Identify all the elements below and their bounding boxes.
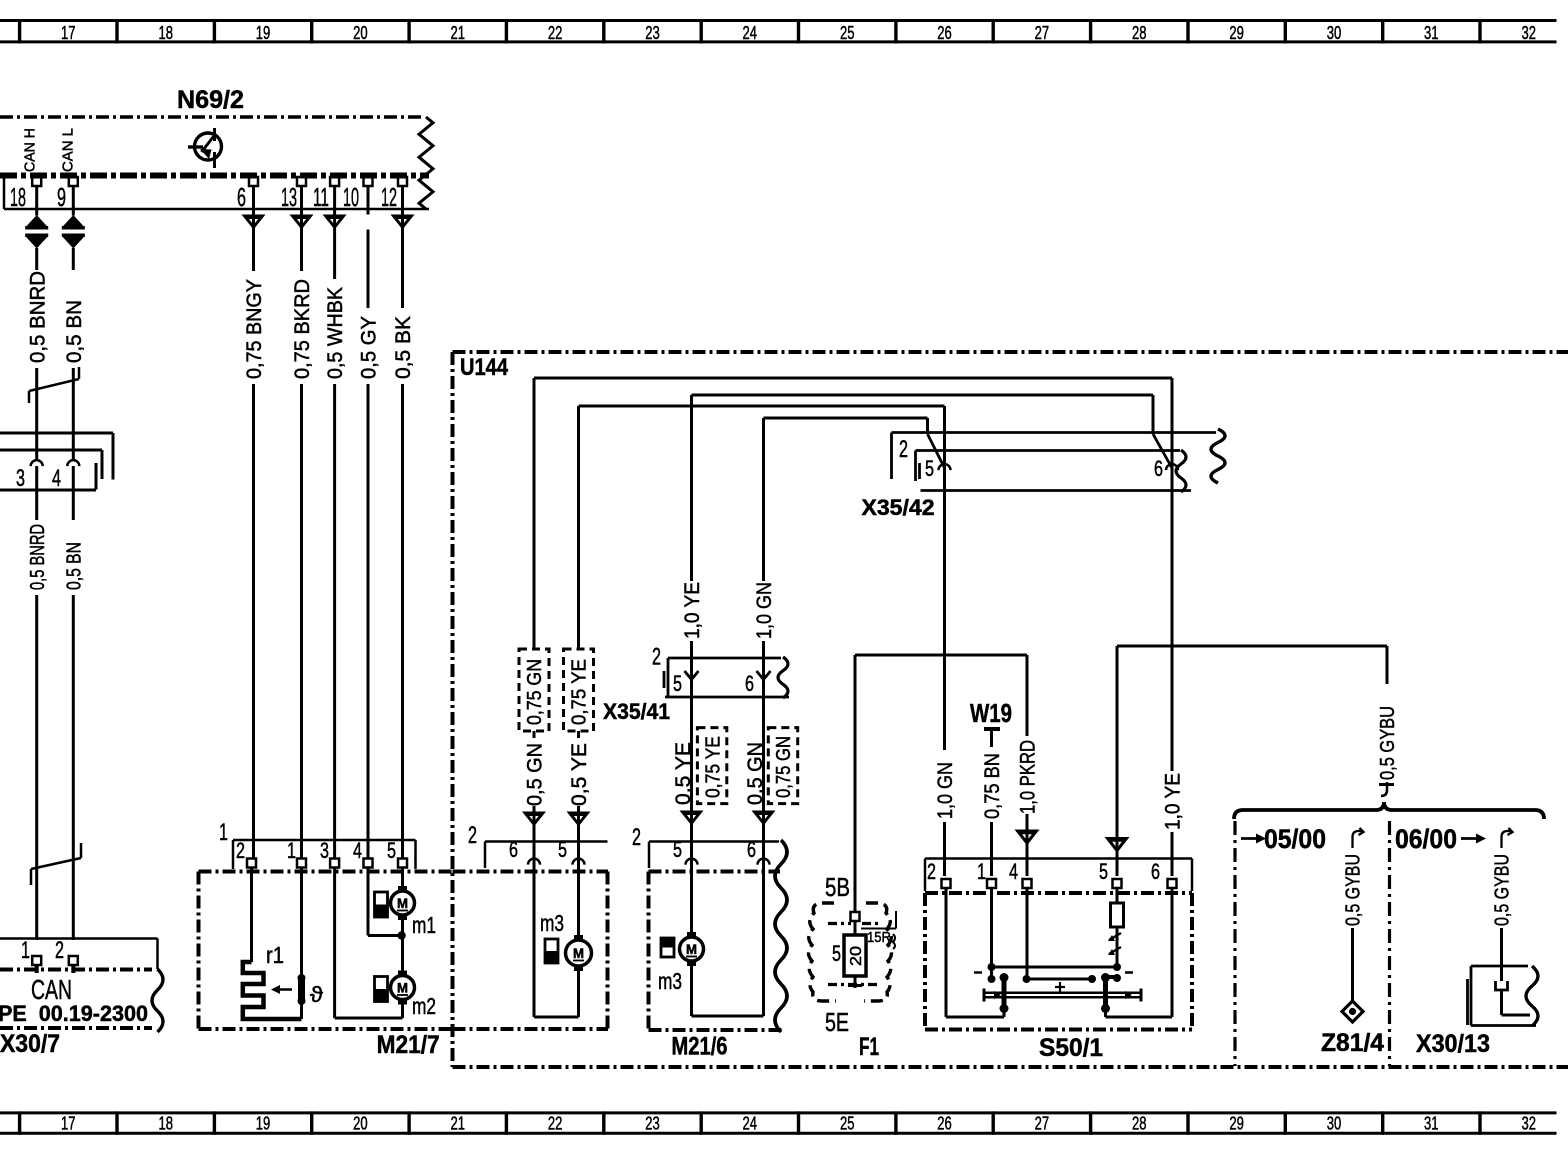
heating element — [984, 989, 1141, 1002]
bottom ruler band — [0, 1111, 1557, 1134]
svg-text:4: 4 — [52, 465, 61, 492]
svg-text:S50/1: S50/1 — [1039, 1034, 1103, 1062]
svg-text:0,5 BK: 0,5 BK — [392, 316, 415, 379]
svg-text:4: 4 — [353, 838, 362, 863]
X35/41 contact — [685, 658, 699, 680]
svg-text:32: 32 — [1521, 1113, 1536, 1134]
svg-text:F1: F1 — [859, 1033, 879, 1061]
svg-text:X30/7: X30/7 — [0, 1030, 60, 1058]
svg-text:20: 20 — [848, 946, 865, 966]
M21/6 connector shell — [632, 824, 779, 868]
svg-text:31: 31 — [1424, 1113, 1439, 1134]
svg-text:9: 9 — [57, 182, 66, 212]
svg-text:m1: m1 — [412, 912, 436, 938]
svg-text:0,75 YE: 0,75 YE — [702, 736, 724, 798]
connector sleeve Z81/4 — [1321, 1001, 1384, 1057]
svg-text:17: 17 — [61, 1113, 76, 1134]
m3 box borders — [453, 872, 609, 1030]
svg-text:20: 20 — [353, 1113, 368, 1134]
svg-text:30: 30 — [1327, 1113, 1342, 1134]
wire GY x=368 — [358, 186, 381, 858]
S50/1 pin terminal — [1023, 879, 1032, 888]
ground W19 — [970, 698, 1012, 876]
svg-text:6: 6 — [1151, 859, 1160, 884]
X35/41 contact — [757, 658, 771, 680]
svg-text:2: 2 — [899, 436, 908, 463]
svg-text:U144: U144 — [460, 354, 509, 381]
svg-text:21: 21 — [450, 1113, 465, 1134]
svg-text:1: 1 — [287, 838, 296, 863]
option separator — [1388, 821, 1391, 1066]
wire BKRD x=301.5 — [290, 186, 315, 858]
wire 0,5 GYBU drop — [1377, 646, 1399, 780]
wire bus D — [764, 417, 928, 420]
svg-text:23: 23 — [645, 22, 660, 43]
svg-text:21: 21 — [450, 22, 465, 43]
m3 blower box connector shell — [468, 822, 608, 868]
thermistor on pin 1 wire — [298, 868, 324, 1020]
svg-text:0,5 BNRD: 0,5 BNRD — [26, 271, 49, 363]
svg-text:X35/41: X35/41 — [603, 699, 670, 724]
svg-text:r1: r1 — [266, 942, 284, 968]
S50/1 internal resistor — [1111, 888, 1124, 967]
top ruler band — [0, 19, 1557, 43]
svg-text:0,75 GN: 0,75 GN — [524, 659, 546, 725]
svg-text:0,75 YE: 0,75 YE — [569, 659, 591, 725]
N69/2 pin 9 — [57, 177, 78, 212]
N69/2 pin 18 — [10, 177, 41, 212]
wire 0,5 YE x=691.5 into M21/6 — [672, 679, 727, 868]
svg-text:1,0 PKRD: 1,0 PKRD — [1017, 740, 1040, 814]
fuse terminal — [851, 912, 860, 935]
svg-text:5: 5 — [925, 456, 934, 481]
svg-text:4: 4 — [1009, 859, 1018, 884]
N69/2 pin 13 — [281, 177, 306, 212]
svg-text:6: 6 — [237, 182, 246, 212]
brush bars — [1000, 973, 1122, 1013]
twisted-pair symbol — [62, 215, 85, 249]
connector pin 4 — [52, 460, 79, 492]
svg-text:05/00: 05/00 — [1264, 824, 1326, 854]
svg-text:06/00: 06/00 — [1395, 824, 1457, 854]
svg-text:2: 2 — [55, 937, 64, 964]
svg-text:26: 26 — [937, 22, 952, 43]
svg-text:m2: m2 — [412, 993, 436, 1019]
M21/6 torn edge — [775, 840, 787, 1032]
svg-text:0,5 BN: 0,5 BN — [63, 300, 86, 363]
wire segment with size/colour label — [63, 248, 86, 460]
svg-text:N69/2: N69/2 — [177, 86, 244, 114]
svg-text:10: 10 — [343, 182, 359, 212]
svg-text:M21/6: M21/6 — [672, 1033, 728, 1061]
svg-text:5: 5 — [1099, 859, 1108, 884]
svg-text:PE 00.19-2300: PE 00.19-2300 — [0, 1001, 148, 1026]
svg-text:1,0 GN: 1,0 GN — [753, 582, 776, 639]
svg-text:1,0 YE: 1,0 YE — [1162, 773, 1185, 830]
svg-text:1: 1 — [219, 819, 228, 846]
S50/1 pin terminal — [987, 879, 996, 888]
motor m2 — [375, 918, 437, 1019]
junction node — [397, 931, 405, 939]
fuse element F1 — [844, 935, 866, 988]
M21/7 connector shell 1 — [219, 819, 416, 869]
N69/2 pin 11 — [313, 177, 339, 212]
transistor symbol in N69/2 — [188, 128, 222, 168]
svg-text:28: 28 — [1132, 22, 1147, 43]
wire to S50/1 pin5 — [1105, 646, 1388, 876]
plus bus — [1023, 888, 1097, 992]
svg-text:M: M — [686, 941, 697, 957]
wire CAN x=36.7 upper segment — [35, 186, 38, 216]
blower unit M21/7 box — [199, 872, 453, 1060]
svg-text:29: 29 — [1229, 1113, 1244, 1134]
svg-text:22: 22 — [548, 22, 563, 43]
wire bus C — [579, 405, 945, 408]
junction block X30/7 — [0, 939, 158, 1029]
option box 06/00 — [1395, 824, 1486, 854]
wire 0,5 YE x=578.5 — [564, 406, 594, 868]
svg-text:0,5 YE: 0,5 YE — [568, 743, 591, 806]
X35/42 contact 5 — [928, 418, 951, 470]
svg-text:m3: m3 — [540, 910, 564, 936]
illumination marks — [1108, 933, 1121, 955]
svg-text:Z81/4: Z81/4 — [1321, 1029, 1384, 1057]
svg-text:11: 11 — [313, 182, 329, 212]
svg-text:23: 23 — [645, 1113, 660, 1134]
adjustment arrow — [271, 985, 292, 994]
svg-text:6: 6 — [1154, 456, 1163, 481]
svg-text:0,5 GN: 0,5 GN — [524, 743, 547, 806]
switch unit S50/1 box — [925, 893, 1192, 1062]
svg-text:24: 24 — [743, 1113, 758, 1134]
wire 0,5 GYBU (05/00) — [1343, 828, 1365, 1002]
svg-text:6: 6 — [509, 837, 518, 862]
svg-text:0,75 GN: 0,75 GN — [773, 736, 795, 798]
wire 1,0 YE to S50/1 pin6 — [1162, 378, 1185, 876]
svg-text:0,75 BN: 0,75 BN — [981, 753, 1004, 819]
N69/2 connector shell — [4, 176, 429, 210]
wire 1,0 GN to S50/1 pin2 — [934, 406, 957, 876]
twist marker lower — [31, 843, 81, 885]
svg-text:5E: 5E — [825, 1007, 849, 1037]
M21/7 pin 3 — [320, 838, 339, 868]
svg-text:ϑ: ϑ — [310, 982, 323, 1007]
svg-text:2: 2 — [652, 644, 661, 671]
svg-text:0,5 BN: 0,5 BN — [64, 542, 86, 590]
svg-text:0,75 BKRD: 0,75 BKRD — [291, 279, 314, 379]
svg-text:29: 29 — [1229, 22, 1244, 43]
connector pin 3 — [16, 460, 43, 492]
svg-text:2: 2 — [927, 859, 936, 884]
svg-text:26: 26 — [937, 1113, 952, 1134]
wire 0,5 GN x=763.5 into M21/6 — [744, 679, 798, 868]
connector X30/13 — [1416, 966, 1536, 1058]
svg-text:5: 5 — [673, 671, 682, 696]
svg-text:0,5 WHBK: 0,5 WHBK — [324, 287, 347, 379]
svg-text:13: 13 — [281, 182, 297, 212]
svg-text:30: 30 — [1327, 22, 1342, 43]
motor m3 (left box) — [534, 866, 592, 1017]
svg-text:5: 5 — [673, 837, 682, 862]
wire 5B to fuse F1 — [854, 655, 857, 912]
svg-text:2: 2 — [632, 824, 641, 851]
option box 05/00 — [1235, 821, 1326, 1066]
twist marker upper — [29, 367, 79, 403]
wire pin3 to motor return — [335, 868, 403, 1019]
svg-text:25: 25 — [840, 22, 855, 43]
fuse holder dashed outline — [809, 903, 892, 1001]
svg-text:0,5 GY: 0,5 GY — [358, 316, 381, 379]
motor m3 (M21/6) — [658, 866, 764, 1016]
wire WHBK x=334.6 — [323, 186, 348, 858]
svg-text:0,5 GYBU: 0,5 GYBU — [1343, 854, 1365, 926]
X30/7 torn edge — [152, 969, 163, 1032]
svg-text:m3: m3 — [658, 968, 682, 994]
svg-text:CAN L: CAN L — [59, 128, 76, 172]
svg-text:M: M — [573, 945, 584, 961]
wire 0,5 GN x=534 — [519, 378, 549, 868]
svg-text:32: 32 — [1521, 22, 1536, 43]
twisted-pair symbol — [25, 215, 48, 249]
svg-text:5: 5 — [387, 838, 396, 863]
svg-text:1,0 YE: 1,0 YE — [681, 582, 704, 639]
svg-text:W19: W19 — [970, 698, 1012, 728]
N69/2 pin 10 — [343, 177, 373, 212]
wire 1,0 YE x=691.5 — [681, 395, 704, 672]
N69/2 pin 12 — [381, 177, 407, 212]
svg-text:27: 27 — [1035, 1113, 1050, 1134]
motor m1 — [375, 868, 437, 939]
X35/42 torn edges — [1176, 450, 1186, 492]
S50/1 return wires — [946, 888, 1172, 1017]
svg-text:X35/42: X35/42 — [862, 495, 935, 520]
svg-text:19: 19 — [256, 22, 271, 43]
M21/7 pin 1 — [287, 838, 306, 868]
svg-text:0,75 BNGY: 0,75 BNGY — [243, 279, 266, 379]
wire CAN x=73.3 lower segment — [64, 466, 86, 940]
N69/2 pin 6 — [237, 177, 258, 212]
svg-text:1: 1 — [21, 937, 30, 964]
assembly U144 box — [453, 352, 1568, 1067]
svg-text:2: 2 — [236, 838, 245, 863]
svg-text:CAN H: CAN H — [21, 128, 38, 172]
svg-text:M: M — [397, 895, 408, 911]
branch arrow to options — [1379, 782, 1394, 796]
svg-text:28: 28 — [1132, 1113, 1147, 1134]
svg-text:0,5 GYBU: 0,5 GYBU — [1377, 706, 1399, 780]
svg-text:M21/7: M21/7 — [377, 1031, 440, 1059]
svg-text:0,5 YE: 0,5 YE — [672, 742, 695, 805]
svg-text:5: 5 — [558, 837, 567, 862]
X30/7 pin 1 — [21, 937, 41, 973]
X30/7 pin 2 — [55, 937, 78, 973]
svg-text:17: 17 — [61, 22, 76, 43]
svg-text:1: 1 — [977, 859, 986, 884]
X35/42 contact 6 — [1153, 395, 1178, 470]
svg-text:22: 22 — [548, 1113, 563, 1134]
wire 0,5 GYBU (06/00) — [1492, 828, 1514, 981]
wire BK x=402.5 — [391, 186, 416, 858]
wire F1 to S50/1 pin4 — [855, 655, 1040, 876]
svg-text:1,0 GN: 1,0 GN — [934, 762, 957, 819]
svg-text:3: 3 — [320, 838, 329, 863]
M21/7 pin 5 — [387, 838, 407, 868]
control unit N69/2 — [0, 86, 429, 176]
wire CAN x=36.7 lower segment — [27, 466, 49, 940]
svg-text:31: 31 — [1424, 22, 1439, 43]
wire 1,0 GN x=763.5 — [753, 418, 776, 672]
S50/1 pin terminal — [1113, 879, 1122, 888]
wire bus A — [534, 377, 1172, 380]
circuit 15R tap — [861, 911, 896, 949]
coupling X35/41 — [603, 644, 789, 725]
svg-text:20: 20 — [353, 22, 368, 43]
svg-text:18: 18 — [158, 1113, 173, 1134]
svg-text:3: 3 — [16, 465, 25, 492]
svg-text:0,5 GN: 0,5 GN — [744, 742, 767, 805]
wire BNGY x=253.5 — [242, 186, 267, 858]
svg-text:5B: 5B — [825, 872, 850, 902]
inline connector pins 3/4 shells — [0, 433, 113, 490]
svg-text:5: 5 — [832, 941, 841, 966]
X35/41 torn edge — [778, 657, 788, 698]
coupling X35/42 shells — [862, 433, 1217, 521]
svg-text:19: 19 — [256, 1113, 271, 1134]
svg-text:2: 2 — [468, 822, 477, 849]
svg-text:18: 18 — [158, 22, 173, 43]
svg-text:M: M — [397, 980, 408, 996]
svg-text:12: 12 — [381, 182, 397, 212]
svg-text:24: 24 — [743, 22, 758, 43]
svg-text:0,5 GYBU: 0,5 GYBU — [1492, 854, 1514, 926]
S50/1 pin terminal — [1168, 879, 1177, 888]
svg-text:15R: 15R — [867, 929, 891, 946]
minus bus — [974, 888, 1133, 983]
M21/7 pin 2 — [236, 838, 256, 868]
wire pin4 to junction — [368, 868, 402, 936]
svg-text:27: 27 — [1035, 22, 1050, 43]
resistor r1 (meander) — [243, 868, 302, 1020]
wire bus B — [692, 394, 1154, 397]
X30/13 torn edge — [1526, 966, 1538, 1026]
svg-text:0,5 BNRD: 0,5 BNRD — [27, 524, 49, 590]
svg-text:25: 25 — [840, 1113, 855, 1134]
N69/2 right torn edge — [419, 117, 433, 209]
svg-text:6: 6 — [747, 837, 756, 862]
S50/1 connector shell — [925, 859, 1192, 892]
svg-text:6: 6 — [745, 671, 754, 696]
wire CAN x=73.3 upper segment — [72, 186, 75, 216]
M21/7 pin 4 — [353, 838, 373, 868]
S50/1 pin terminal — [942, 879, 951, 888]
M21/6 box borders — [649, 872, 783, 1061]
svg-text:18: 18 — [10, 182, 26, 212]
wire segment with size/colour label — [26, 248, 49, 460]
options brace — [1234, 802, 1544, 819]
svg-text:X30/13: X30/13 — [1416, 1030, 1490, 1058]
